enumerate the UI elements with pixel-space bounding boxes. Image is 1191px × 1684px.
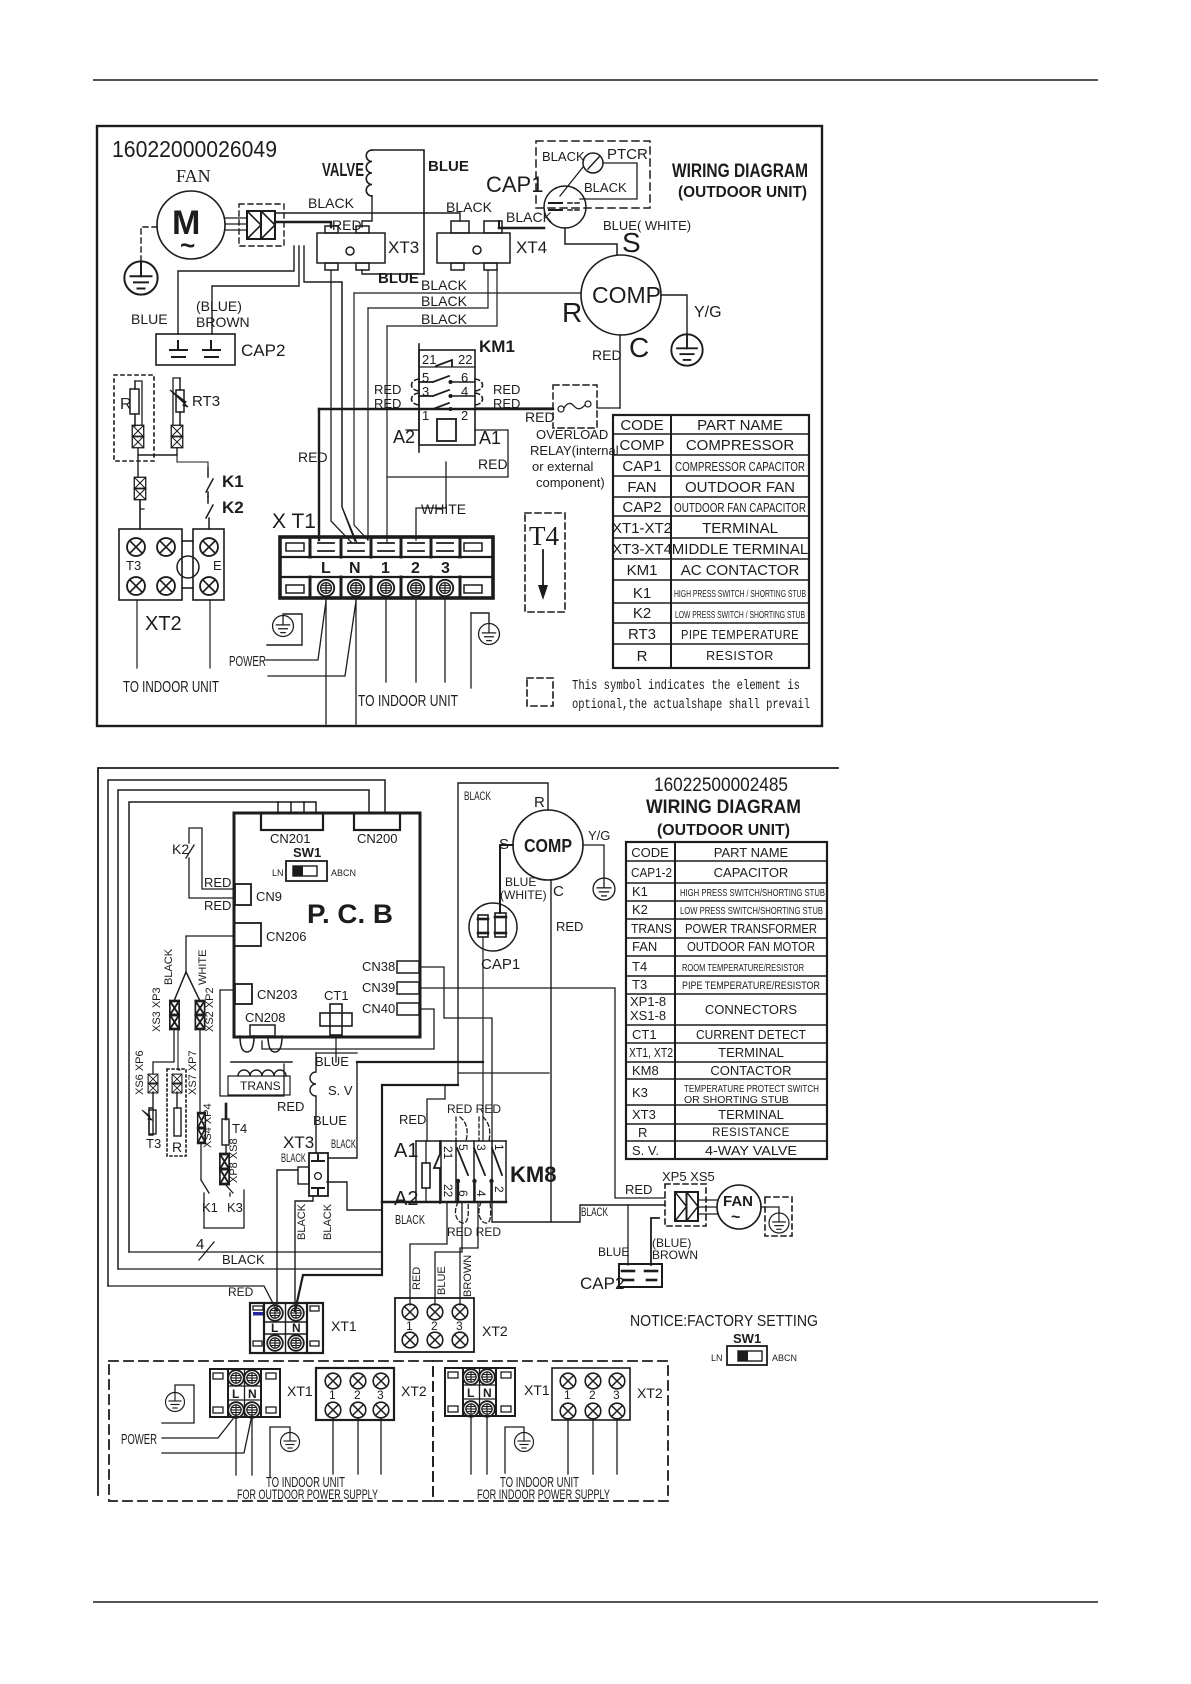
- svg-text:S. V: S. V: [328, 1083, 353, 1098]
- svg-text:4-WAY VALVE: 4-WAY VALVE: [705, 1143, 797, 1158]
- wire black fan to XT4: [275, 213, 460, 221]
- svg-text:PIPE TEMPERATURE: PIPE TEMPERATURE: [681, 627, 799, 642]
- terminal XT2 (mid): [395, 1298, 474, 1352]
- svg-text:XS2 XP2: XS2 XP2: [204, 987, 216, 1032]
- svg-text:RED RED: RED RED: [447, 1225, 501, 1239]
- svg-text:XT3: XT3: [388, 238, 419, 257]
- wire XS2 down: [199, 1029, 201, 1113]
- PTCR: [583, 153, 603, 173]
- nested wire loop 4: [129, 802, 278, 1252]
- svg-text:XT3: XT3: [632, 1107, 656, 1122]
- svg-text:XT1: XT1: [287, 1383, 313, 1399]
- svg-text:CAP1: CAP1: [486, 172, 543, 197]
- svg-text:BLACK: BLACK: [322, 1203, 334, 1240]
- svg-text:CN39: CN39: [362, 980, 395, 995]
- svg-text:BROWN: BROWN: [652, 1248, 698, 1262]
- svg-text:XT2: XT2: [401, 1383, 427, 1399]
- svg-text:BLACK: BLACK: [421, 293, 468, 309]
- parts table d2: [626, 842, 827, 1159]
- connector pair lower: [134, 477, 145, 488]
- connectors CN38/39/40: [397, 961, 419, 973]
- right group: terminal XT1: [445, 1368, 515, 1416]
- svg-text:LN: LN: [272, 868, 284, 878]
- svg-text:TRANS: TRANS: [240, 1079, 281, 1093]
- svg-text:K1: K1: [632, 884, 648, 899]
- svg-text:POWER: POWER: [229, 653, 266, 670]
- svg-text:(OUTDOOR UNIT): (OUTDOOR UNIT): [657, 822, 790, 839]
- wire to ground: [583, 845, 604, 877]
- svg-text:BLACK: BLACK: [281, 1153, 306, 1165]
- transformer TRANS: [220, 990, 284, 1096]
- fan motor M1: [157, 191, 225, 259]
- svg-text:R: R: [637, 648, 648, 665]
- svg-text:PTCR: PTCR: [607, 146, 648, 163]
- svg-text:L: L: [467, 1386, 474, 1400]
- terminal XT4: [437, 221, 510, 270]
- svg-text:BLACK: BLACK: [395, 1213, 425, 1227]
- connector XP/XS fan symbol: [247, 211, 275, 239]
- svg-text:OUTDOOR FAN MOTOR: OUTDOOR FAN MOTOR: [687, 939, 815, 954]
- svg-text:3: 3: [613, 1388, 620, 1402]
- svg-text:XS3 XP3: XS3 XP3: [151, 987, 163, 1032]
- svg-text:16022000026049: 16022000026049: [112, 136, 277, 162]
- nested wire loop 2: [108, 780, 385, 1286]
- capacitor CAP1: [544, 186, 586, 228]
- wire R to left: [458, 783, 548, 1085]
- terminal XT3: [309, 1153, 328, 1196]
- left group: terminal XT1: [210, 1369, 280, 1417]
- svg-text:BLACK: BLACK: [506, 209, 553, 225]
- svg-text:CONTACTOR: CONTACTOR: [710, 1063, 791, 1078]
- wire CT1 down: [335, 1035, 337, 1062]
- svg-text:XS6 XP6: XS6 XP6: [134, 1050, 146, 1095]
- wire KM1 row1 to overload to C: [475, 407, 553, 409]
- svg-text:1: 1: [492, 1144, 506, 1151]
- wire BLUE XT3 to bundle: [362, 270, 424, 274]
- svg-text:(BLUE): (BLUE): [196, 298, 242, 314]
- svg-text:16022500002485: 16022500002485: [654, 775, 788, 796]
- svg-text:NOTICE:FACTORY SETTING: NOTICE:FACTORY SETTING: [630, 1313, 818, 1330]
- right group: terminal XT2: [552, 1368, 630, 1420]
- svg-text:S. V.: S. V.: [632, 1143, 659, 1158]
- svg-text:3: 3: [456, 1319, 463, 1333]
- ground (fan motor): [124, 261, 157, 294]
- svg-text:RED: RED: [478, 456, 508, 472]
- svg-text:CAP2: CAP2: [580, 1274, 624, 1293]
- svg-text:3: 3: [441, 560, 450, 577]
- svg-text:3: 3: [474, 1144, 488, 1151]
- wire XS3 down: [153, 1029, 174, 1074]
- svg-text:CAP2: CAP2: [241, 341, 285, 360]
- svg-text:T3: T3: [632, 977, 647, 992]
- svg-text:A2: A2: [394, 1188, 418, 1210]
- svg-text:PART NAME: PART NAME: [714, 845, 789, 860]
- svg-text:or external: or external: [532, 459, 594, 474]
- svg-text:TERMINAL: TERMINAL: [702, 520, 778, 537]
- svg-text:BROWN: BROWN: [462, 1255, 474, 1297]
- svg-text:X T1: X T1: [272, 510, 316, 533]
- svg-text:BLACK: BLACK: [584, 180, 627, 195]
- svg-text:4: 4: [196, 1236, 204, 1253]
- connector CN206: [234, 923, 261, 946]
- svg-text:R: R: [638, 1125, 647, 1140]
- svg-text:CN203: CN203: [257, 987, 297, 1002]
- svg-text:6: 6: [461, 370, 468, 385]
- wires below XT1: [325, 598, 327, 724]
- svg-text:XT2: XT2: [145, 613, 182, 635]
- top rule: [93, 79, 1098, 81]
- svg-text:4: 4: [461, 384, 468, 399]
- svg-text:KM8: KM8: [510, 1162, 556, 1187]
- legend dashed symbol: [527, 678, 553, 706]
- svg-text:CAPACITOR: CAPACITOR: [714, 865, 789, 880]
- KM8 contacts: [434, 1141, 440, 1203]
- svg-text:XT1: XT1: [331, 1318, 357, 1334]
- terminal block XT2: [119, 529, 224, 600]
- svg-text:CN40: CN40: [362, 1001, 395, 1016]
- svg-text:ABCN: ABCN: [331, 868, 356, 878]
- svg-text:OR SHORTING STUB: OR SHORTING STUB: [684, 1094, 789, 1106]
- right group ground: [505, 1427, 524, 1473]
- svg-text:XT3: XT3: [283, 1133, 314, 1152]
- contactor KM1: [419, 350, 475, 445]
- svg-text:C: C: [553, 883, 564, 900]
- svg-text:CAP1-2: CAP1-2: [631, 865, 672, 880]
- svg-text:Y/G: Y/G: [588, 828, 610, 843]
- dashed box T4: [525, 513, 565, 612]
- svg-text:RED: RED: [411, 1267, 423, 1290]
- svg-text:CN208: CN208: [245, 1010, 285, 1025]
- wires motor to connector: [225, 217, 247, 219]
- svg-text:CN206: CN206: [266, 929, 306, 944]
- svg-text:XS1-8: XS1-8: [630, 1008, 666, 1023]
- svg-text:P. C. B: P. C. B: [307, 899, 393, 929]
- wire bundle verticals to XT1: [318, 409, 320, 540]
- svg-text:POWER TRANSFORMER: POWER TRANSFORMER: [685, 921, 817, 936]
- svg-text:~: ~: [731, 1209, 740, 1226]
- wire CN39 to fan RED: [420, 988, 665, 1198]
- svg-text:RED: RED: [228, 1285, 254, 1299]
- svg-text:CT1: CT1: [632, 1027, 657, 1042]
- connector CN203: [235, 984, 252, 1004]
- wire fan connector brown to CAP2: [212, 246, 299, 334]
- svg-text:HIGH PRESS SWITCH / SHORTING S: HIGH PRESS SWITCH / SHORTING STUB: [674, 588, 806, 600]
- svg-text:CAP1: CAP1: [622, 458, 661, 475]
- svg-text:RED: RED: [298, 449, 328, 465]
- dashed box PTCR: [536, 141, 650, 208]
- svg-text:RED: RED: [625, 1182, 652, 1197]
- svg-text:2: 2: [461, 408, 468, 423]
- wire XT3 top right: [328, 1062, 357, 1158]
- wire XT4 to CAP1 thick: [499, 227, 544, 230]
- svg-text:L: L: [271, 1321, 278, 1335]
- svg-text:N: N: [349, 560, 361, 577]
- svg-text:CAP2: CAP2: [622, 499, 661, 516]
- svg-text:KM1: KM1: [479, 337, 515, 356]
- svg-text:21: 21: [441, 1146, 455, 1160]
- svg-text:CONNECTORS: CONNECTORS: [705, 1002, 798, 1017]
- wire CN206 to sensors V: [186, 936, 234, 972]
- screws: [318, 580, 334, 596]
- dashed RED jumpers KM1 left: [412, 379, 420, 391]
- svg-text:2: 2: [492, 1186, 506, 1193]
- PCB board: [234, 813, 420, 1037]
- svg-text:RELAY(internal: RELAY(internal: [530, 443, 619, 458]
- ground fan dashed box: [765, 1197, 792, 1236]
- svg-text:E: E: [213, 558, 222, 573]
- svg-text:COMP: COMP: [592, 282, 661, 308]
- svg-text:BLACK: BLACK: [308, 195, 355, 211]
- svg-text:4: 4: [474, 1190, 488, 1197]
- svg-text:RED: RED: [374, 382, 401, 397]
- wire COMP to ground: [661, 295, 687, 333]
- svg-text:BLUE: BLUE: [598, 1245, 629, 1259]
- KM8 contact numbers rotated: [441, 1144, 506, 1198]
- wire CN38 to KM8 contact1: [420, 967, 492, 1141]
- svg-text:2: 2: [431, 1319, 438, 1333]
- svg-text:BLACK: BLACK: [464, 791, 491, 803]
- wire BLACK3 to XT4: [387, 270, 497, 326]
- capacitor CAP2: [156, 334, 235, 365]
- svg-text:XP5 XS5: XP5 XS5: [662, 1169, 715, 1184]
- svg-text:WIRING DIAGRAM: WIRING DIAGRAM: [646, 797, 801, 818]
- wire C down: [550, 880, 552, 1222]
- svg-text:XS7 XP7: XS7 XP7: [187, 1050, 199, 1095]
- wire connector to XT2: [139, 500, 141, 529]
- bottom rule: [93, 1601, 1098, 1603]
- svg-text:RED: RED: [525, 409, 555, 425]
- KM8 coil: [422, 1163, 430, 1188]
- svg-text:1: 1: [564, 1388, 571, 1402]
- wire RED overload row to XT1 L: [319, 408, 553, 410]
- connector CN200: [354, 813, 400, 830]
- svg-text:FOR INDOOR POWER SUPPLY: FOR INDOOR POWER SUPPLY: [477, 1486, 610, 1502]
- svg-text:CN201: CN201: [270, 831, 310, 846]
- capacitor CAP1 (d2): [469, 903, 517, 951]
- svg-text:CN9: CN9: [256, 889, 282, 904]
- svg-text:COMP: COMP: [524, 836, 572, 856]
- svg-text:FAN: FAN: [632, 939, 657, 954]
- ground left below XT1: [273, 616, 294, 637]
- svg-text:component): component): [536, 475, 605, 490]
- svg-text:RESISTANCE: RESISTANCE: [712, 1127, 790, 1139]
- compressor COMP: [581, 255, 661, 335]
- connector XP/XS fan dashed box: [239, 204, 284, 246]
- svg-text:~: ~: [180, 230, 195, 260]
- svg-text:C: C: [629, 332, 649, 363]
- svg-text:N: N: [292, 1321, 301, 1335]
- svg-text:ABCN: ABCN: [772, 1353, 797, 1363]
- wire K2 to lower connector: [140, 505, 144, 509]
- svg-text:RED: RED: [277, 1099, 304, 1114]
- svg-text:Y/G: Y/G: [694, 304, 722, 321]
- ground right below XT1: [479, 624, 500, 645]
- svg-text:BLACK: BLACK: [331, 1139, 356, 1151]
- svg-text:BLUE: BLUE: [315, 1054, 349, 1069]
- svg-text:COMP: COMP: [620, 437, 665, 454]
- svg-text:CURRENT DETECT: CURRENT DETECT: [696, 1027, 806, 1042]
- svg-text:K1: K1: [222, 472, 244, 491]
- svg-text:POWER: POWER: [121, 1431, 157, 1448]
- overload relay element: [558, 406, 564, 412]
- svg-text:RED: RED: [204, 898, 231, 913]
- svg-text:TERMINAL: TERMINAL: [718, 1107, 784, 1122]
- svg-text:RED: RED: [493, 382, 520, 397]
- d1 border: [97, 126, 822, 726]
- svg-text:BLACK: BLACK: [421, 311, 468, 327]
- svg-text:21: 21: [422, 352, 436, 367]
- svg-text:OUTDOOR FAN: OUTDOOR FAN: [685, 479, 795, 496]
- svg-text:BLUE: BLUE: [436, 1266, 448, 1295]
- capacitor CAP2 (d2): [619, 1264, 662, 1287]
- left group: ground: [166, 1393, 185, 1412]
- dotted box R: [167, 1069, 186, 1156]
- svg-text:BLUE( WHITE): BLUE( WHITE): [603, 218, 691, 233]
- ground (compressor): [671, 334, 702, 365]
- wire PTCR to CAP1: [560, 167, 583, 196]
- svg-text:K1: K1: [633, 585, 651, 602]
- svg-text:K2: K2: [632, 902, 648, 917]
- svg-text:VALVE: VALVE: [322, 160, 364, 180]
- svg-text:SW1: SW1: [733, 1331, 761, 1346]
- svg-text:K2: K2: [633, 605, 651, 622]
- svg-text:AC CONTACTOR: AC CONTACTOR: [681, 562, 800, 579]
- svg-text:2: 2: [411, 560, 420, 577]
- wire BLUE to CAP2: [627, 1205, 629, 1265]
- right group wires down: [470, 1416, 472, 1474]
- svg-text:(WHITE): (WHITE): [500, 888, 547, 902]
- svg-text:RED: RED: [399, 1112, 426, 1127]
- svg-text:HIGH PRESS SWITCH/SHORTING STU: HIGH PRESS SWITCH/SHORTING STUB: [680, 888, 825, 899]
- svg-text:COMPRESSOR: COMPRESSOR: [686, 437, 795, 454]
- svg-text:LN: LN: [711, 1353, 723, 1363]
- connector CN9: [235, 884, 251, 905]
- svg-text:T3: T3: [146, 1136, 161, 1151]
- svg-text:1: 1: [406, 1319, 413, 1333]
- svg-text:K3: K3: [632, 1085, 648, 1100]
- svg-text:S: S: [622, 227, 641, 258]
- svg-text:WHITE: WHITE: [197, 950, 209, 985]
- svg-text:RT3: RT3: [628, 626, 656, 643]
- wire valve bottom to XT3: [362, 196, 372, 227]
- wire valve top to blue drop: [372, 150, 424, 274]
- svg-text:T4: T4: [529, 521, 559, 551]
- svg-text:PART NAME: PART NAME: [697, 417, 783, 434]
- terminal XT1 (mid): [250, 1303, 323, 1353]
- svg-text:BLACK: BLACK: [581, 1207, 608, 1219]
- svg-text:FAN: FAN: [723, 1193, 753, 1210]
- svg-text:RED: RED: [204, 875, 231, 890]
- ground (comp d2): [593, 878, 615, 900]
- 3-pin connector on PCB top: [278, 802, 316, 813]
- svg-text:22: 22: [458, 352, 472, 367]
- svg-text:BLUE: BLUE: [131, 311, 168, 327]
- svg-text:OUTDOOR FAN CAPACITOR: OUTDOOR FAN CAPACITOR: [674, 500, 806, 515]
- wire RT3 to K1: [177, 455, 208, 468]
- wire A1 red: [427, 1085, 445, 1141]
- svg-text:N: N: [483, 1386, 492, 1400]
- wire BLACK2 to XT4: [368, 270, 488, 308]
- svg-text:MIDDLE TERMINAL: MIDDLE TERMINAL: [672, 541, 808, 558]
- svg-text:N: N: [248, 1387, 257, 1401]
- svg-text:T3: T3: [126, 558, 141, 573]
- svg-text:BROWN: BROWN: [196, 314, 250, 330]
- left group ground 2: [270, 1427, 290, 1477]
- svg-text:optional,the actualshape shall: optional,the actualshape shall prevail: [572, 698, 810, 713]
- svg-text:COMPRESSOR CAPACITOR: COMPRESSOR CAPACITOR: [675, 459, 805, 474]
- svg-text:FAN: FAN: [627, 479, 656, 496]
- left group: terminal XT2: [316, 1368, 394, 1420]
- wire spur to C: [458, 1072, 549, 1074]
- svg-text:TRANS: TRANS: [631, 921, 672, 936]
- wire XT3 left black: [277, 1170, 298, 1311]
- svg-text:KM1: KM1: [627, 562, 658, 579]
- svg-text:R: R: [172, 1139, 182, 1155]
- svg-text:XT4: XT4: [516, 238, 547, 257]
- terminal XT3: [317, 226, 385, 270]
- terminal cells: [310, 537, 460, 598]
- svg-text:1: 1: [422, 408, 429, 423]
- svg-text:3: 3: [377, 1388, 384, 1402]
- resistor R: [176, 1092, 178, 1108]
- dashed box around R: [114, 375, 154, 461]
- svg-text:2: 2: [589, 1388, 596, 1402]
- svg-text:TO INDOOR UNIT: TO INDOOR UNIT: [358, 693, 458, 710]
- svg-text:R: R: [562, 297, 582, 328]
- fan motor FAN (d2): [717, 1185, 761, 1229]
- svg-text:L: L: [232, 1387, 239, 1401]
- svg-text:ROOM TEMPERATURE/RESISTOR: ROOM TEMPERATURE/RESISTOR: [682, 962, 804, 974]
- svg-text:XT1-XT2: XT1-XT2: [612, 520, 672, 537]
- wire BROWN to CAP2: [651, 1218, 659, 1265]
- svg-text:CT1: CT1: [324, 988, 349, 1003]
- left group wires down: [235, 1417, 237, 1475]
- svg-text:(OUTDOOR UNIT): (OUTDOOR UNIT): [678, 184, 807, 201]
- svg-text:BLUE: BLUE: [378, 270, 419, 287]
- svg-text:OVERLOAD: OVERLOAD: [536, 427, 608, 442]
- svg-text:L: L: [321, 560, 331, 577]
- parts table d1: [613, 415, 809, 668]
- svg-text:22: 22: [441, 1184, 455, 1198]
- svg-text:CODE: CODE: [631, 845, 669, 860]
- svg-text:BLACK: BLACK: [296, 1203, 308, 1240]
- wire CAP1 to S: [565, 228, 617, 255]
- svg-text:T4: T4: [232, 1121, 247, 1136]
- svg-text:BLUE: BLUE: [428, 158, 469, 175]
- thermistor T3: [149, 1092, 153, 1135]
- svg-text:XT3-XT4: XT3-XT4: [612, 541, 672, 558]
- svg-text:CN200: CN200: [357, 831, 397, 846]
- wire S to CAP1: [500, 845, 513, 913]
- svg-text:BLACK: BLACK: [542, 149, 585, 164]
- big dashed boxes: [109, 1361, 433, 1501]
- svg-text:FOR OUTDOOR POWER SUPPLY: FOR OUTDOOR POWER SUPPLY: [237, 1486, 378, 1502]
- wire WHITE to XT1-2: [416, 462, 446, 540]
- svg-text:TERMINAL: TERMINAL: [718, 1045, 784, 1060]
- svg-text:LOW PRESS SWITCH/SHORTING STUB: LOW PRESS SWITCH/SHORTING STUB: [680, 906, 823, 917]
- svg-text:XT1: XT1: [524, 1382, 550, 1398]
- wire dashed to ground: [141, 227, 157, 261]
- svg-text:TO INDOOR UNIT: TO INDOOR UNIT: [123, 679, 219, 696]
- svg-text:RED RED: RED RED: [447, 1102, 501, 1116]
- connector CN201: [261, 813, 323, 830]
- wires KM8 to XT2 mid: [410, 1202, 447, 1305]
- svg-text:RESISTOR: RESISTOR: [706, 649, 774, 663]
- svg-text:XT2: XT2: [637, 1385, 663, 1401]
- svg-text:SW1: SW1: [293, 845, 321, 860]
- svg-text:K2: K2: [172, 841, 189, 857]
- wire thick PCB bus to XT1 N: [295, 1085, 458, 1311]
